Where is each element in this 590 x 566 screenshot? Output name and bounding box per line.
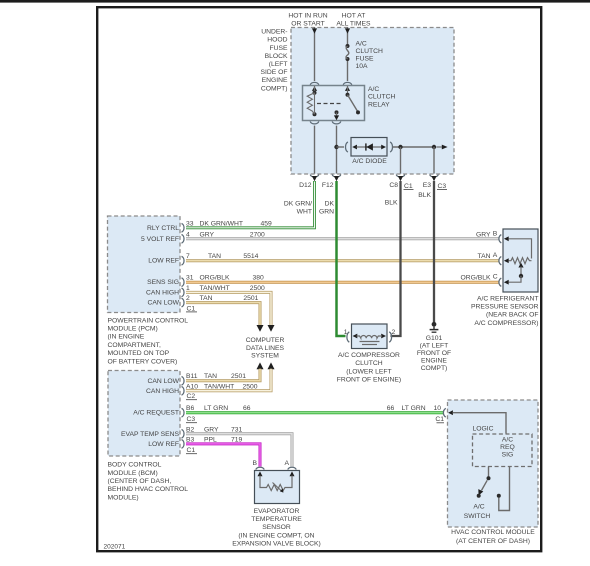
logic inner dashed box bbox=[473, 434, 533, 467]
wire color label DK GRN (vertical run) bbox=[319, 200, 334, 215]
wire TAN/WHT 2500 BCM A10 to data lines bbox=[186, 369, 271, 391]
wire GRY 731 BCM B2 to evap sensor A bbox=[186, 434, 292, 467]
wire TAN 5514 PCM pin7 to pressure sensor A bbox=[186, 259, 499, 262]
svg-text:LT GRN: LT GRN bbox=[204, 405, 228, 412]
wire DK GRN F12 down to compressor clutch bbox=[337, 181, 346, 336]
wire label A10 TAN/WHT 2500 bbox=[186, 383, 258, 390]
wire label B11 TAN 2501 bbox=[186, 373, 246, 380]
A/C diode D1 box bbox=[351, 138, 387, 157]
svg-text:(AT CENTER OF DASH): (AT CENTER OF DASH) bbox=[456, 538, 530, 545]
svg-text:D12: D12 bbox=[299, 182, 312, 189]
top border rule bbox=[0, 0, 590, 3]
svg-text:202071: 202071 bbox=[104, 544, 126, 551]
svg-text:SYSTEM: SYSTEM bbox=[251, 353, 279, 360]
wire: relay coil output down to D12 bbox=[314, 126, 316, 174]
svg-text:MODULE (PCM): MODULE (PCM) bbox=[108, 326, 158, 333]
svg-text:LOGIC: LOGIC bbox=[472, 425, 493, 432]
svg-text:ENGINE: ENGINE bbox=[262, 77, 288, 84]
svg-text:COMPARTMENT,: COMPARTMENT, bbox=[108, 342, 162, 349]
svg-text:HVAC CONTROL MODULE: HVAC CONTROL MODULE bbox=[451, 529, 535, 536]
relay K1 box bbox=[303, 86, 365, 121]
evap sensor connector arcs bbox=[256, 467, 296, 469]
svg-text:LOW REF: LOW REF bbox=[148, 258, 179, 265]
svg-text:LT GRN: LT GRN bbox=[402, 405, 426, 412]
wire color label DK GRN/WHT (vertical run) bbox=[284, 200, 312, 215]
wire label B2 GRY 731 bbox=[186, 426, 243, 433]
svg-text:CAN LOW: CAN LOW bbox=[147, 300, 179, 307]
svg-text:DK GRN/: DK GRN/ bbox=[284, 200, 312, 207]
relay label bbox=[368, 86, 396, 108]
junction C8 branch bbox=[398, 145, 402, 149]
under-hood fuse block caption bbox=[260, 29, 288, 93]
svg-text:FRONT OF: FRONT OF bbox=[417, 350, 451, 357]
svg-text:PRESSURE SENSOR: PRESSURE SENSOR bbox=[471, 304, 539, 311]
wire GRY 2700 PCM pin4 to pressure sensor B bbox=[186, 237, 499, 240]
svg-text:B6: B6 bbox=[186, 405, 195, 412]
svg-text:POWERTRAIN CONTROL: POWERTRAIN CONTROL bbox=[108, 317, 189, 324]
svg-text:2501: 2501 bbox=[243, 295, 258, 302]
svg-text:A/C REFRIGERANT: A/C REFRIGERANT bbox=[477, 295, 539, 302]
wire label 33 DK GRN/WHT 459 bbox=[186, 220, 272, 227]
svg-text:RELAY: RELAY bbox=[368, 101, 390, 108]
svg-text:C1: C1 bbox=[404, 183, 413, 190]
svg-text:MODULE): MODULE) bbox=[108, 494, 139, 501]
svg-text:A/C: A/C bbox=[356, 40, 367, 47]
svg-text:DATA LINES: DATA LINES bbox=[246, 345, 285, 352]
pressure sensor internals bbox=[509, 239, 532, 282]
wire label B3 PPL 719 bbox=[186, 437, 243, 444]
HVAC internal wire to logic box bbox=[453, 413, 507, 434]
continuation stub arrow bbox=[437, 145, 448, 150]
wire TAN/WHT 2500 PCM pin1 to data lines bbox=[186, 292, 275, 331]
wire BLK C8 down to compressor clutch pin2 bbox=[391, 181, 401, 336]
computer data lines system label bbox=[246, 337, 285, 360]
svg-text:731: 731 bbox=[231, 426, 243, 433]
relay coil bbox=[307, 86, 316, 116]
svg-text:TAN/WHT: TAN/WHT bbox=[200, 285, 230, 292]
BCM connector label C3 bbox=[186, 416, 197, 423]
svg-text:HOOD: HOOD bbox=[267, 37, 287, 44]
wire to A/C diode bbox=[337, 146, 345, 148]
svg-text:GRY: GRY bbox=[476, 231, 491, 238]
svg-text:1: 1 bbox=[344, 329, 348, 336]
svg-text:(IN ENGINE: (IN ENGINE bbox=[108, 334, 145, 341]
clutch coil symbol bbox=[357, 336, 383, 345]
svg-text:A/C COMPRESSOR: A/C COMPRESSOR bbox=[338, 352, 400, 359]
data lines up arrows from BCM bbox=[257, 362, 275, 369]
wire from diode to blk branches bbox=[393, 146, 434, 148]
node HOT AT ALL TIMES bbox=[336, 13, 371, 28]
wire ORG/BLK 380 PCM pin31 to pressure sensor C bbox=[186, 281, 499, 284]
wire: relay switch output down to F12 bbox=[336, 126, 338, 174]
svg-text:A/C DIODE: A/C DIODE bbox=[352, 158, 387, 165]
A/C compressor clutch connector arcs bbox=[347, 332, 392, 342]
svg-text:TAN: TAN bbox=[478, 253, 491, 260]
svg-text:(LEFT: (LEFT bbox=[269, 61, 288, 68]
svg-text:A/C COMPRESSOR): A/C COMPRESSOR) bbox=[474, 320, 538, 327]
svg-text:EVAPORATOR: EVAPORATOR bbox=[254, 508, 300, 515]
svg-text:2: 2 bbox=[186, 295, 190, 302]
evaporator temperature sensor box bbox=[255, 471, 300, 504]
svg-text:CAN HIGH: CAN HIGH bbox=[146, 289, 179, 296]
svg-text:A: A bbox=[284, 460, 289, 467]
ground G101 bbox=[430, 322, 439, 332]
svg-text:GRY: GRY bbox=[204, 426, 219, 433]
svg-text:2700: 2700 bbox=[250, 231, 265, 238]
svg-text:UNDER-: UNDER- bbox=[261, 29, 287, 36]
svg-text:TAN: TAN bbox=[200, 295, 213, 302]
wire label 7 TAN 5514 bbox=[186, 253, 259, 260]
svg-text:5514: 5514 bbox=[243, 253, 258, 260]
wire: hot at all times feed bbox=[345, 27, 350, 81]
svg-text:B11: B11 bbox=[186, 373, 198, 380]
BCM connector arcs bbox=[182, 377, 185, 449]
svg-text:BODY CONTROL: BODY CONTROL bbox=[108, 462, 162, 469]
evap sensor caption bbox=[232, 508, 321, 548]
svg-text:E3: E3 bbox=[423, 182, 432, 189]
BCM connector label C2 bbox=[186, 393, 197, 400]
relay armature dashed link bbox=[317, 103, 343, 105]
connector label C3 bbox=[437, 183, 447, 190]
sensor wire label TAN A bbox=[478, 252, 498, 260]
svg-text:459: 459 bbox=[261, 220, 273, 227]
svg-text:COMPT): COMPT) bbox=[421, 365, 448, 372]
PCM connector arcs bbox=[182, 224, 185, 307]
wire LT GRN 66 BCM B6 to HVAC bbox=[186, 411, 444, 414]
pressure sensor caption bbox=[471, 295, 539, 327]
svg-text:A: A bbox=[493, 252, 498, 259]
svg-text:FUSE: FUSE bbox=[356, 56, 375, 63]
diode connector ( bbox=[346, 142, 348, 152]
sensor wire label ORG/BLK C bbox=[460, 274, 497, 282]
svg-text:COMPUTER: COMPUTER bbox=[246, 337, 285, 344]
svg-text:C1: C1 bbox=[435, 416, 444, 423]
pressure sensor entry arrows bbox=[504, 236, 509, 284]
A/C SWITCH label bbox=[464, 503, 491, 520]
svg-text:C: C bbox=[493, 274, 498, 281]
wire label 66 LT GRN 10 near HVAC bbox=[387, 405, 441, 412]
BCM connector label C1 bbox=[186, 447, 197, 454]
svg-text:HOT IN RUN: HOT IN RUN bbox=[288, 13, 327, 20]
svg-text:4: 4 bbox=[186, 231, 190, 238]
svg-text:33: 33 bbox=[186, 220, 194, 227]
svg-text:B: B bbox=[493, 230, 498, 237]
relay pin arrows (entering) bbox=[312, 86, 350, 91]
PCM connector label C1 bbox=[186, 305, 197, 312]
connector arcs at relay top bbox=[310, 82, 352, 84]
PCM box (dashed) bbox=[108, 216, 181, 313]
HVAC connector arc + arrow bbox=[443, 408, 453, 417]
wire down to C8 bbox=[400, 147, 402, 174]
svg-text:C3: C3 bbox=[438, 183, 447, 190]
svg-text:SIG: SIG bbox=[502, 452, 514, 459]
connector arcs at relay bottom bbox=[310, 121, 341, 123]
svg-text:5 VOLT REF: 5 VOLT REF bbox=[141, 236, 179, 243]
diode connector ) bbox=[390, 142, 392, 152]
svg-text:OR START: OR START bbox=[291, 21, 325, 28]
svg-text:CLUTCH: CLUTCH bbox=[368, 94, 396, 101]
connector label C1 bbox=[404, 183, 414, 190]
svg-text:F12: F12 bbox=[322, 182, 334, 189]
svg-text:10A: 10A bbox=[356, 63, 369, 70]
diode internal symbol bbox=[352, 143, 386, 150]
clutch entry arrows bbox=[353, 334, 387, 339]
A/C compressor clutch box bbox=[352, 324, 388, 349]
svg-text:2501: 2501 bbox=[231, 373, 246, 380]
svg-text:A/C: A/C bbox=[368, 86, 379, 93]
clutch caption bbox=[337, 352, 401, 383]
evap sensor thermistor bbox=[260, 476, 292, 493]
svg-text:REQ: REQ bbox=[500, 444, 515, 451]
relay switch bbox=[334, 86, 360, 120]
A/C switch symbol bbox=[477, 467, 510, 511]
svg-text:ORG/BLK: ORG/BLK bbox=[460, 275, 491, 282]
svg-text:A/C: A/C bbox=[502, 437, 513, 444]
svg-text:ORG/BLK: ORG/BLK bbox=[200, 275, 231, 282]
svg-text:TAN: TAN bbox=[204, 373, 217, 380]
svg-text:CAN LOW: CAN LOW bbox=[147, 378, 179, 385]
svg-text:66: 66 bbox=[243, 405, 251, 412]
svg-text:A/C REQUEST: A/C REQUEST bbox=[133, 410, 179, 417]
svg-text:10: 10 bbox=[434, 405, 442, 412]
connector arcs+arrows at fuse block bottom D12 F12 C8 E3 bbox=[310, 175, 438, 182]
evap sensor entry arrows bbox=[258, 471, 295, 476]
wire label 1 TAN/WHT 2500 bbox=[186, 285, 265, 292]
svg-text:TEMPERATURE: TEMPERATURE bbox=[251, 516, 302, 523]
svg-text:31: 31 bbox=[186, 275, 194, 282]
svg-text:(AT LEFT: (AT LEFT bbox=[420, 342, 449, 349]
svg-text:C1: C1 bbox=[187, 305, 196, 312]
svg-text:A/C: A/C bbox=[473, 503, 484, 510]
G101 caption bbox=[417, 335, 451, 372]
sensor wire label GRY B bbox=[476, 230, 498, 238]
page frame bbox=[97, 7, 541, 551]
svg-text:7: 7 bbox=[186, 253, 190, 260]
svg-text:COMPT): COMPT) bbox=[261, 85, 288, 92]
PCM caption bbox=[108, 317, 189, 365]
svg-text:MOUNTED ON TOP: MOUNTED ON TOP bbox=[108, 350, 170, 357]
svg-text:OF BATTERY COVER): OF BATTERY COVER) bbox=[108, 358, 178, 365]
wire PPL 719 BCM B3 to evap sensor B bbox=[186, 444, 260, 467]
svg-text:CAN HIGH: CAN HIGH bbox=[146, 388, 179, 395]
HVAC control module box (dashed) bbox=[448, 400, 539, 527]
HVAC connector label C1 bbox=[435, 416, 444, 423]
svg-text:2: 2 bbox=[392, 329, 396, 336]
svg-text:BLK: BLK bbox=[418, 192, 431, 199]
svg-text:CLUTCH: CLUTCH bbox=[355, 360, 383, 367]
svg-text:C8: C8 bbox=[389, 182, 398, 189]
svg-text:WHT: WHT bbox=[297, 208, 312, 215]
svg-text:1: 1 bbox=[186, 285, 190, 292]
svg-text:SWITCH: SWITCH bbox=[464, 513, 491, 520]
fuse F1 A/C CLUTCH FUSE 10A bbox=[346, 44, 350, 61]
svg-text:(IN ENGINE COMPT, ON: (IN ENGINE COMPT, ON bbox=[238, 532, 314, 539]
svg-text:380: 380 bbox=[253, 275, 265, 282]
PCM pin name labels bbox=[141, 225, 180, 307]
svg-text:EXPANSION VALVE BLOCK): EXPANSION VALVE BLOCK) bbox=[232, 541, 321, 548]
junction to diode branch bbox=[334, 145, 338, 149]
wire: hot in run feed into fuse block bbox=[312, 27, 317, 81]
svg-text:DK: DK bbox=[325, 200, 335, 207]
pressure sensor connector arcs bbox=[499, 235, 501, 287]
svg-text:SIDE OF: SIDE OF bbox=[260, 69, 287, 76]
svg-text:EVAP TEMP SENS: EVAP TEMP SENS bbox=[121, 431, 180, 438]
svg-text:DK GRN/WHT: DK GRN/WHT bbox=[200, 220, 244, 227]
svg-text:HOT AT: HOT AT bbox=[342, 13, 366, 20]
svg-text:BEHIND HVAC CONTROL: BEHIND HVAC CONTROL bbox=[108, 486, 189, 493]
wire BLK E3 down to G101 bbox=[433, 181, 435, 323]
svg-text:BLK: BLK bbox=[385, 199, 398, 206]
svg-text:ENGINE: ENGINE bbox=[421, 357, 447, 364]
junction E3 branch bbox=[432, 145, 436, 149]
svg-text:(NEAR BACK OF: (NEAR BACK OF bbox=[486, 312, 539, 319]
svg-text:2500: 2500 bbox=[250, 285, 265, 292]
under-hood fuse block (dashed box) bbox=[291, 28, 454, 175]
wire label B6 LT GRN 66 bbox=[186, 405, 251, 412]
svg-text:FUSE: FUSE bbox=[269, 45, 288, 52]
fuse label bbox=[356, 40, 384, 70]
svg-text:GRN: GRN bbox=[319, 208, 334, 215]
BCM caption bbox=[108, 462, 189, 502]
svg-text:(LOWER LEFT: (LOWER LEFT bbox=[346, 368, 391, 375]
node HOT IN RUN OR START bbox=[288, 13, 327, 28]
svg-text:GRY: GRY bbox=[200, 231, 215, 238]
svg-text:SENSOR: SENSOR bbox=[262, 524, 291, 531]
BCM box (dashed) bbox=[108, 371, 180, 457]
wire label 4 GRY 2700 bbox=[186, 231, 265, 238]
svg-text:(CENTER OF DASH,: (CENTER OF DASH, bbox=[108, 478, 172, 485]
svg-text:G101: G101 bbox=[426, 335, 443, 342]
svg-text:C2: C2 bbox=[187, 393, 196, 400]
svg-text:C1: C1 bbox=[187, 447, 196, 454]
BCM pin name labels bbox=[121, 378, 180, 448]
A/C REQ SIG label bbox=[500, 437, 515, 459]
svg-text:CLUTCH: CLUTCH bbox=[356, 48, 384, 55]
A/C refrigerant pressure sensor box bbox=[503, 229, 538, 292]
wire label 2 TAN 2501 bbox=[186, 295, 259, 302]
wire TAN 2501 PCM pin2 to data lines bbox=[186, 303, 264, 332]
svg-text:RLY CTRL: RLY CTRL bbox=[147, 225, 179, 232]
wire DK GRN/WHT 459 D12 to PCM pin33 bbox=[186, 181, 315, 228]
svg-text:MODULE (BCM): MODULE (BCM) bbox=[108, 470, 158, 477]
svg-text:BLOCK: BLOCK bbox=[265, 53, 288, 60]
wire label 31 ORG/BLK 380 bbox=[186, 275, 264, 282]
svg-text:ALL TIMES: ALL TIMES bbox=[336, 21, 371, 28]
svg-text:B2: B2 bbox=[186, 426, 195, 433]
wire down to E3 bbox=[433, 147, 435, 174]
svg-text:B: B bbox=[252, 460, 257, 467]
svg-text:FRONT OF ENGINE): FRONT OF ENGINE) bbox=[337, 376, 401, 383]
wire TAN 2501 BCM B11 to data lines bbox=[186, 369, 260, 381]
svg-text:TAN: TAN bbox=[208, 253, 221, 260]
svg-text:66: 66 bbox=[387, 405, 395, 412]
HVAC caption bbox=[451, 529, 535, 545]
svg-text:LOW REF: LOW REF bbox=[148, 441, 179, 448]
svg-text:C3: C3 bbox=[187, 416, 196, 423]
svg-text:SENS SIG: SENS SIG bbox=[147, 279, 179, 286]
